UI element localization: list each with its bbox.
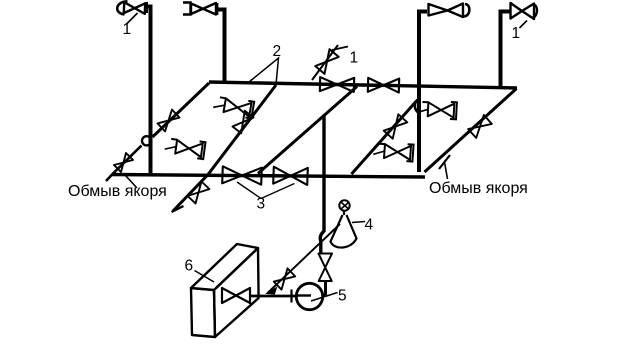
svg-text:5: 5 [338,288,347,305]
valve Z6 on S4 [468,115,492,138]
leaders for label 2 [249,58,279,85]
leader for label 6 [195,271,215,283]
suction pipe from tank to pump [250,295,297,298]
valve Z2 on S1 [114,153,133,172]
leader for label 1 (top-left) [127,13,138,24]
valve 1 top-left V1a [117,1,146,14]
valve 3b on bottom rail [273,167,308,185]
leaders for label 3 [237,182,295,199]
pump 5 (circle) [296,283,322,309]
valve B1 on top rail [320,77,354,92]
leader for label 1 (top-right) [520,21,528,29]
tank outlet valve [222,288,250,303]
flange tick on suction pipe [290,290,292,303]
arrow at bypass lower end [267,288,277,295]
nozzle N3 (right panel top) [417,102,457,119]
leader to left Obmyv label [125,175,137,188]
crossing loop where S1 hops riser P1 [142,136,151,145]
valve V1d [511,3,538,19]
nozzle N2 (left panel bottom) [165,139,206,159]
svg-text:Обмыв якоря: Обмыв якоря [429,180,528,197]
riser pipe P2 [218,10,225,83]
tick on S4 for right Obmyv label [439,155,450,169]
riser pipe P1 (from valve 1 top-left) [146,7,151,174]
svg-text:3: 3 [257,196,266,213]
slant pipe S3 (left edge of middle panel) [258,87,357,174]
valve Z5 on S3' [384,114,408,138]
valve B2 on top rail [368,78,399,93]
hook at S2 end [172,206,184,212]
svg-text:1: 1 [350,50,359,67]
slant pipe S2 (right edge of left panel) [173,85,276,211]
valve Z1 on S1 [158,110,180,132]
nozzle N4 (right panel bottom) [373,144,413,162]
tank 6 top face [191,244,258,290]
slant pipe S1 (left edge of left panel) [153,83,210,137]
bottom rail (lower distribution pipe) [112,175,425,178]
vent line for middle valve 1 [312,45,338,80]
riser pipe P4 [501,12,510,88]
valve on bypass [274,268,295,289]
valve (hourglass) on drop pipe [319,254,333,282]
tick above vent valve [332,47,348,51]
nozzle N1 (left panel top) [213,97,254,118]
vent valve 1 (middle) [315,49,338,74]
svg-text:4: 4 [365,217,374,234]
bypass pipe to funnel [268,224,341,293]
svg-text:1: 1 [512,25,521,42]
leader for label 5 [311,293,338,302]
valve Z3 on S2 [233,111,254,134]
valve 3a on bottom rail [222,166,262,184]
svg-text:6: 6 [185,258,194,275]
mid drop pipe to pump [320,116,324,254]
valve V1c [429,4,470,18]
svg-text:Обмыв якоря: Обмыв якоря [68,183,167,200]
svg-text:2: 2 [273,43,282,60]
leader for label 4 [352,222,365,223]
funnel 4 body [331,211,357,248]
svg-text:1: 1 [123,21,132,38]
tank 6 front face [214,248,259,337]
jog where slant joins riser P3 [415,99,419,113]
riser pipe P3 [419,12,427,173]
slant pipe S4 (right edge of right panel) [425,89,517,173]
tank 6 left face [191,288,215,337]
top rail (upper distribution pipe) [209,82,517,88]
funnel 4 knob [339,200,349,210]
valve V1b [183,3,217,16]
slant pipe S3' (rising to riser P3) [352,102,417,175]
valve Z4 on S2 extension [188,182,210,204]
